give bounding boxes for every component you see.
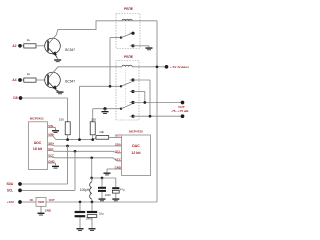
svg-text:IN: IN [30, 198, 33, 202]
relay K1 contact NO pin [130, 44, 133, 47]
wire filtered VCC rail [92, 176, 116, 179]
capacitor C2 47u electrolytic [112, 187, 119, 189]
wire A2 to R1 [22, 44, 24, 47]
svg-text:OUT: OUT [115, 134, 121, 138]
ground at VIN- [52, 130, 59, 131]
wire relay K1 common [110, 36, 121, 39]
node OUT terminal lower [181, 114, 185, 118]
wire lower OUT line [133, 114, 183, 117]
svg-text:BC547: BC547 [65, 80, 75, 84]
relay K2 actuator link [124, 70, 126, 105]
node junction C3 top [79, 201, 82, 204]
ground at Q2 emitter [57, 91, 64, 92]
relay K2 dashed enclosure [116, 61, 139, 121]
ground at Q1 emitter [54, 59, 61, 60]
regulator U3 7805 [36, 198, 46, 207]
svg-text:MCP4725: MCP4725 [129, 129, 143, 133]
ground at relay K1 contact [146, 47, 153, 48]
wire R1 to Q1 base [36, 44, 45, 47]
svg-text:A2: A2 [12, 44, 16, 48]
relay K1 coil [122, 19, 132, 22]
resistor R3 150 [65, 122, 70, 135]
relay K1 dashed enclosure [116, 14, 140, 49]
relay K2 pole2 NC contact [130, 101, 133, 104]
ground at C2 [112, 198, 119, 199]
svg-text:1k: 1k [27, 72, 31, 76]
wire relay K2 pole2 common [93, 107, 121, 110]
node junction upper OUT [143, 101, 146, 104]
capacitor C4 10u electrolytic [90, 202, 93, 211]
node junction SCL bus [74, 150, 77, 153]
svg-text:+12V: +12V [7, 200, 15, 204]
ground at C4 [89, 228, 96, 229]
svg-text:BC547: BC547 [65, 48, 75, 52]
wire coil K2 to +5V node [132, 65, 167, 68]
svg-text:10k: 10k [99, 130, 104, 134]
relay K2 pole1 NC contact [130, 79, 133, 82]
svg-text:100µH: 100µH [80, 188, 90, 192]
node junction VCC bus [90, 156, 93, 159]
ground at U1 GND [52, 166, 59, 167]
svg-text:47µ: 47µ [120, 188, 125, 192]
svg-text:РЕЛЕ: РЕЛЕ [124, 55, 134, 59]
svg-text:18 bit: 18 bit [33, 147, 43, 151]
wire U2 GND to ground [107, 167, 122, 170]
svg-text:150: 150 [91, 118, 96, 122]
wire Q1 collector to relay K1 coil [49, 21, 122, 44]
node junction L1 bottom / C4 top [91, 201, 94, 204]
node junction R4-VIN+ [91, 138, 94, 141]
svg-text:D8: D8 [13, 96, 17, 100]
node pole2 common ground tap [103, 107, 106, 110]
node junction R3-VIN+ [66, 138, 69, 141]
svg-text:VIN-: VIN- [48, 124, 54, 128]
wire relay K2 pole1 common [80, 85, 122, 88]
transistor Q1 BC547 [45, 38, 61, 54]
node junction C1 top [101, 177, 104, 180]
ground at U3 [38, 213, 45, 214]
svg-text:100n: 100n [105, 193, 112, 197]
relay K2 pole1 armature [120, 85, 122, 87]
ground at C1 [99, 198, 106, 199]
svg-text:VCC: VCC [115, 157, 121, 161]
relay K1 contact NC pin [130, 32, 133, 35]
wire upper OUT line [133, 101, 183, 104]
svg-text:1k: 1k [27, 38, 31, 42]
wire +12V to U3 IN [22, 200, 36, 203]
svg-text:РЕЛЕ: РЕЛЕ [124, 7, 134, 11]
svg-text:OUT: OUT [49, 198, 55, 202]
svg-text:12 bit: 12 bit [131, 151, 141, 155]
wire VCC drop to LC filter [90, 158, 93, 178]
node OUT terminal upper [181, 101, 185, 105]
ground at relay K2 pole2 [102, 111, 109, 112]
svg-text:ADC: ADC [34, 141, 42, 145]
svg-text:MCP3421: MCP3421 [30, 116, 44, 120]
node junction K1 common / K2 pole1 [109, 85, 112, 88]
wire U3 GND to ground [39, 206, 42, 212]
+5V vertical rail [155, 21, 158, 202]
wire D8 to R3 [22, 96, 67, 99]
relay K2 pole2 NO contact [130, 115, 133, 118]
IC U1 MCP3421 ADC box [29, 122, 48, 170]
wire coil K1 to +5V rail corner [132, 19, 157, 22]
svg-text:SCL: SCL [115, 149, 121, 153]
pin VIN- of U1 [48, 126, 56, 129]
wire relay K1 NO contact to ground [133, 44, 149, 47]
wire R4 to VIN+ bus [91, 135, 94, 140]
wire Q2 collector to relay K2 coil [49, 67, 122, 78]
IC U2 MCP4725 DAC box [122, 135, 151, 176]
svg-text:SDA: SDA [6, 182, 13, 186]
svg-text:150: 150 [59, 118, 64, 122]
relay K1 actuator link [124, 25, 126, 37]
svg-text:GND: GND [45, 209, 51, 213]
svg-text:DAC: DAC [132, 144, 140, 148]
node +5V junction at K2 coil [156, 65, 159, 68]
ground at U2 GND [104, 173, 111, 174]
wire SCL drop to terminal [73, 151, 76, 190]
relay K2 coil [122, 65, 132, 67]
wire R3 to VIN+ bus [66, 135, 69, 140]
capacitor C1 100n [100, 178, 103, 187]
resistor R4 150 [90, 122, 95, 135]
svg-text:-75...+75 мВ: -75...+75 мВ [171, 109, 189, 113]
transistor Q2 BC547 [45, 72, 61, 88]
resistor R5 10k [96, 136, 109, 140]
node junction SDA bus [66, 145, 69, 148]
ground at C3 [77, 228, 84, 229]
wire SDA drop to terminal [66, 146, 69, 184]
resistor R1 1k [24, 44, 36, 48]
capacitor C3 100n [78, 202, 81, 211]
wire 5V bottom rail [46, 200, 157, 203]
wire R2 to Q2 base [36, 78, 45, 81]
relay K2 pole2 armature [120, 108, 122, 110]
node +5V Arduino terminal [165, 65, 169, 69]
svg-text:7805: 7805 [38, 200, 45, 204]
svg-text:SDA: SDA [115, 142, 121, 146]
svg-text:10µ: 10µ [99, 211, 104, 215]
svg-text:SCL: SCL [7, 189, 13, 193]
resistor R2 1k [24, 78, 36, 82]
relay K2 pole1 NO contact [130, 90, 133, 93]
node junction lower OUT [149, 115, 152, 118]
node junction K2pole1-VIN+ [78, 138, 81, 141]
svg-text:+ 5V Arduino: + 5V Arduino [170, 65, 189, 69]
svg-text:OUT: OUT [178, 105, 185, 109]
wire K2 pole1 NC to lower OUT [133, 78, 150, 81]
wire K2 pole1 NO to upper OUT [133, 90, 145, 93]
wire A4 to R2 [22, 78, 24, 81]
inductor L1 100uH [90, 178, 93, 182]
svg-text:A4: A4 [12, 78, 16, 82]
node junction filter top [90, 177, 93, 180]
relay K1 armature [120, 36, 122, 38]
wire R5 to U2 OUT pin [109, 136, 122, 139]
